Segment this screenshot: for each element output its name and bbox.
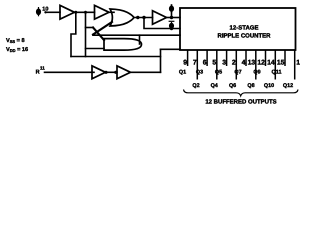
wire stub Q8	[255, 50, 257, 80]
wire phi stem	[171, 5, 173, 18]
svg-text:VSS = 8: VSS = 8	[6, 38, 25, 44]
svg-text:7: 7	[193, 60, 197, 67]
svg-text:3: 3	[222, 60, 226, 67]
wire stub Q3	[206, 50, 208, 66]
node phi junction	[170, 16, 173, 19]
inverter I5	[117, 66, 131, 79]
svg-text:Q9: Q9	[253, 70, 260, 76]
node dots	[44, 11, 173, 74]
wire stub Q9	[265, 50, 267, 66]
wire cross to OR lower input	[93, 22, 112, 35]
node A1	[74, 11, 77, 14]
wire stub Q10	[274, 50, 276, 80]
wire G1 output (phi line)	[134, 17, 153, 19]
brace 12 outputs	[184, 90, 299, 96]
pin number labels	[183, 60, 300, 67]
inverter I1	[60, 5, 75, 19]
phi symbol (internal clock)	[169, 5, 173, 14]
inverter I2	[95, 5, 110, 19]
wire bottom rail	[71, 56, 161, 58]
wire I4 to I5	[106, 71, 118, 73]
svg-text:1: 1	[296, 60, 300, 67]
wire reset hook into box corner	[161, 48, 181, 50]
box 12-stage ripple counter	[180, 8, 296, 50]
svg-text:6: 6	[203, 60, 207, 67]
svg-text:Q11: Q11	[272, 70, 282, 76]
svg-text:Q3: Q3	[196, 70, 203, 76]
or-gate G1	[110, 9, 134, 26]
wire dropline node A1	[71, 12, 76, 56]
and-gate G2	[104, 39, 142, 51]
odd output labels	[179, 70, 282, 76]
wire stub Q7	[245, 50, 247, 66]
wire belt feedback bar to box	[93, 34, 180, 36]
node phi-bar junction	[170, 27, 173, 30]
svg-text:13: 13	[248, 60, 256, 67]
svg-text:Q5: Q5	[215, 70, 222, 76]
node C1	[136, 16, 139, 19]
svg-text:9: 9	[183, 60, 187, 67]
svg-text:11: 11	[40, 65, 45, 70]
wire I3 out to box	[167, 17, 181, 19]
wire cross branch	[86, 27, 94, 29]
node A2	[84, 11, 87, 14]
node R2	[114, 71, 117, 74]
wire cross to AND upper input	[93, 28, 104, 41]
svg-text:Q8: Q8	[247, 83, 254, 89]
svg-text:VDD = 16: VDD = 16	[6, 47, 28, 53]
output stubs	[188, 50, 295, 80]
svg-text:Q1: Q1	[179, 70, 186, 76]
svg-text:Q2: Q2	[192, 83, 199, 89]
svg-text:2: 2	[232, 60, 236, 67]
wire stub Q12	[294, 50, 296, 80]
wire I1 out to I2	[75, 11, 95, 13]
phi symbol (clock input pin)	[36, 7, 40, 16]
wire belt down to AND output	[139, 35, 141, 44]
svg-text:RIPPLE COUNTER: RIPPLE COUNTER	[217, 33, 271, 40]
even output labels	[192, 83, 293, 89]
wire stub Q1	[187, 50, 189, 66]
svg-text:14: 14	[267, 60, 275, 67]
phi-bar symbol (internal clock complement)	[169, 21, 175, 29]
svg-text:Q10: Q10	[264, 83, 274, 89]
svg-text:5: 5	[212, 60, 216, 67]
node R1	[104, 71, 107, 74]
wire stub Q2	[196, 50, 198, 80]
wire clock input	[46, 11, 60, 13]
svg-text:Q7: Q7	[234, 70, 241, 76]
svg-text:Q12: Q12	[283, 83, 293, 89]
wire stub Q5	[226, 50, 228, 66]
wire AND lower input wrap	[86, 48, 105, 50]
svg-text:Q4: Q4	[211, 83, 218, 89]
wire phi-bar drop	[144, 18, 180, 29]
svg-text:12-STAGE: 12-STAGE	[230, 25, 259, 32]
wire stub Q6	[235, 50, 237, 80]
wire reset riser	[160, 49, 162, 72]
wire reset input	[45, 71, 95, 73]
svg-text:15: 15	[277, 60, 285, 67]
svg-text:R: R	[36, 70, 40, 76]
svg-text:4: 4	[242, 60, 246, 67]
svg-text:10: 10	[42, 6, 48, 12]
svg-text:Q6: Q6	[229, 83, 236, 89]
wire stub Q4	[216, 50, 218, 80]
wire I5 out to riser	[131, 71, 161, 73]
wire I2 out to OR	[109, 11, 114, 13]
wire dropline node A2	[85, 12, 87, 56]
node C2	[142, 16, 145, 19]
svg-text:12: 12	[257, 60, 265, 67]
inverter I3	[153, 11, 167, 25]
svg-text:12 BUFFERED OUTPUTS: 12 BUFFERED OUTPUTS	[205, 99, 276, 106]
inverter I4	[92, 66, 106, 79]
node clock input	[44, 11, 46, 13]
wire stub Q11	[284, 50, 286, 66]
